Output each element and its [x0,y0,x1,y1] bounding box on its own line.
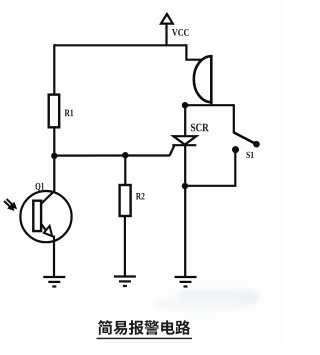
wire left vertical upper [53,44,55,95]
label VCC [172,29,189,36]
wire top rail [54,44,186,46]
switch S1 pole dot [253,141,260,148]
wire SCR anode [184,104,186,136]
phototransistor Q1 emitter arrowhead [44,226,52,236]
ground R2 [114,277,136,287]
switch S1 throw dot [232,146,239,153]
junction dot R1 bottom / gate net [51,153,57,159]
phototransistor Q1 envelope [20,191,71,242]
phototransistor Q1 emitter lead [41,224,46,230]
caption title 简易报警电路 [98,320,190,335]
switch S1 lever [234,133,255,144]
wire switch lower branch [185,150,235,186]
wire speaker bottom rail [185,104,234,106]
ground Q1 emitter [43,277,65,287]
phototransistor Q1 collector lead [41,192,54,204]
wire SCR cathode to ground [184,145,186,277]
phototransistor Q1 base bar [33,201,41,231]
light arrow 1 [4,201,13,210]
speaker LS1 [194,55,211,104]
label Q1 [36,183,44,191]
wire R2 bottom [124,215,126,277]
label R2 [136,193,145,199]
wire mid horizontal gate net [54,154,170,156]
wire R2 top [124,155,126,187]
SCR U1 triangle and cathode bar [172,136,196,145]
ground SCR cathode [175,277,197,287]
label S1 [246,152,253,158]
power VCC arrow [161,14,173,24]
wire SCR gate lead [170,145,175,155]
wire switch upper branch [233,104,235,133]
light arrow 2 [7,199,16,208]
label R1 [65,110,74,116]
wire VCC stub [165,23,167,46]
resistor R1 [49,95,60,128]
label SCR [191,124,209,132]
junction dot speaker bottom [182,102,188,108]
junction dot R2 top [122,152,128,158]
wire Q1 emitter to ground [53,236,55,278]
caption underline [97,337,193,339]
wire left vertical middle [53,127,55,193]
junction dot SCR cathode net [182,183,188,189]
wire corner to speaker top [186,44,202,60]
resistor R2 [120,185,131,216]
